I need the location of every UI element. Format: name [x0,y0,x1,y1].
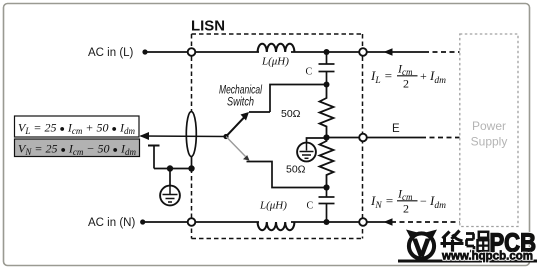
capacitor C (bottom) [326,188,328,198]
formula box VL [15,116,140,137]
svg-text:L(μH): L(μH) [261,56,289,68]
arrow on N wire (current direction) [384,218,393,226]
junction dot below capacitor C top [324,82,330,88]
junction dot at ground branch [167,165,173,171]
node circle: L wire at left LISN edge [188,48,196,56]
ground (safety earth) left [160,169,180,206]
power supply dashed box [460,34,518,227]
junction dot on L wire at capacitor [324,49,330,55]
svg-text:AC in (N): AC in (N) [88,217,135,229]
junction dot below lower resistor [323,184,329,190]
junction dot on N wire at capacitor [324,219,330,225]
wire L: phase line [145,51,259,53]
watermark logo (circle V with horns) [406,230,437,259]
LISN dashed box right edge [362,34,364,239]
svg-text:AC in (L): AC in (L) [88,47,134,59]
resistor R1 50ohm (upper) [320,85,334,138]
LISN dashed box top edge [192,33,363,35]
svg-text:L(μH): L(μH) [259,200,287,212]
wire T to probe bottom [154,168,192,170]
arrowhead to formula boxes [140,132,150,140]
node: AC in (L) terminal dot [142,49,147,54]
current probe ellipse [186,112,196,157]
LISN dashed box bottom edge [192,238,363,240]
svg-text:Supply: Supply [471,135,508,149]
T terminal stub [148,145,160,147]
wire E to power supply [327,137,422,139]
watermark glyph: hua (custom strokes) [441,231,464,253]
arrow on L wire (current direction) [384,48,393,56]
LISN dashed box left edge (lower) [191,169,193,239]
switch upper contact [249,111,270,113]
switch blade (open, gray, to lower contact) [226,137,246,157]
watermark glyph: qiang (custom strokes) [466,232,489,251]
capacitor C (top) [326,52,328,64]
resistor R2 50ohm (lower) [320,138,334,188]
LISN dashed box left edge (upper) [191,34,193,112]
node circle: L wire at right LISN edge [359,48,367,56]
wire to ground symbol (mid) [307,138,327,143]
switch lower contact wire [247,162,327,188]
svg-text:C: C [307,201,314,212]
wire from switch upper contact to resistor top [270,85,327,113]
svg-text:+: + [420,69,427,83]
switch blade (closed, to upper contact) [226,118,244,137]
node: AC in (N) terminal dot [140,219,145,224]
svg-text:C: C [306,67,313,78]
node circle: N wire at left LISN edge [188,218,196,226]
svg-text:E: E [392,123,400,135]
svg-text:2: 2 [403,77,409,91]
svg-text:50Ω: 50Ω [281,108,301,120]
node circle: N wire at right LISN edge [359,218,367,226]
formula IL [370,62,446,91]
svg-text:www.hqpcb.com: www.hqpcb.com [441,250,533,262]
svg-text:50Ω: 50Ω [286,164,306,176]
svg-text:2: 2 [403,202,409,216]
watermark underline [398,260,537,263]
wire N: neutral line [143,221,259,223]
inductor L2 (bottom) [258,222,295,230]
switch pole dot [223,134,228,139]
svg-text:LISN: LISN [191,19,225,35]
solid link ellipse bottom to junction [191,156,193,169]
junction dot below probe [188,165,194,171]
junction dot midpoint E node [323,134,329,140]
ground (safety earth) at resistor midpoint [297,143,316,162]
svg-text:Switch: Switch [227,97,254,109]
formula IN [370,187,446,216]
svg-text:−: − [420,194,427,208]
inductor L1 (top) [258,44,295,52]
formula box VN (gray) [15,139,140,157]
svg-text:Power: Power [472,119,506,133]
svg-text:Mechanical: Mechanical [219,85,262,97]
node circle: E wire at right LISN edge [359,134,367,142]
wire through probe to switch pole [141,135,227,138]
